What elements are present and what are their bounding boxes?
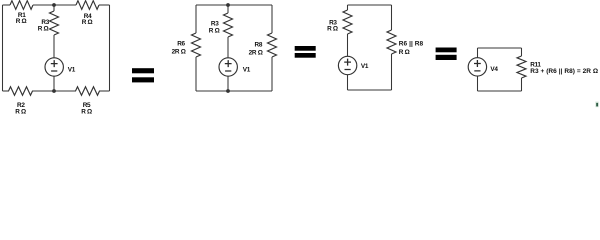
wire: R3 to V1 [53,35,55,58]
svg-text:R Ω: R Ω [81,109,92,116]
wire: R3 to V1 (circuit 3) [347,34,349,56]
resistor R2 [9,87,33,96]
wire: circuit 1 middle branch upper [53,5,55,11]
resistor R6 [192,33,201,57]
svg-text:R Ω: R Ω [38,25,49,32]
wire: circuit 2 left upper [195,5,197,33]
wire: circuit 4 right lower [521,78,523,91]
wire: circuit 3 top rail [348,4,392,6]
svg-text:R Ω: R Ω [82,19,93,26]
wire: circuit 2 right lower [271,57,273,91]
equals sign 3 [436,48,457,53]
wire: circuit 4 right upper [521,48,523,56]
node: circuit 1 bottom junction [52,89,56,93]
equals sign 1 [132,68,154,73]
svg-text:R Ω: R Ω [399,49,410,56]
svg-text:R3: R3 [211,20,219,27]
wire: circuit 4 bottom rail [478,90,522,92]
wire: circuit 1 right side [109,5,111,91]
svg-text:V1: V1 [68,66,76,73]
svg-text:R6 || R8: R6 || R8 [399,40,424,47]
wire: circuit 3 bottom rail [348,89,392,91]
wire: circuit 1 bottom-right segment [99,90,110,92]
node: circuit 1 top junction [52,3,56,7]
svg-text:R Ω: R Ω [16,18,27,25]
wire: circuit 2 left lower [195,57,197,91]
wire: circuit 3 right upper [391,5,393,30]
wire: circuit 3 left upper [347,5,349,10]
resistor R11 [517,56,526,78]
wire: V1 to bottom junction [53,76,55,91]
wire: circuit 2 middle upper [227,5,229,13]
wire: V1 to bottom (circuit 2) [227,76,229,91]
wire: V1 to bottom (circuit 3) [347,75,349,90]
svg-text:R3 + (R6 || R8) = 2R Ω: R3 + (R6 || R8) = 2R Ω [530,68,598,75]
resistor R8 [268,33,277,57]
wire: circuit 4 top rail [478,47,522,49]
resistor R1 [10,1,33,10]
svg-text:R8: R8 [255,41,263,48]
wire: circuit 1 bottom middle segment [32,90,76,92]
voltage source V1 (circuit 3) [338,56,356,74]
resistor R6 || R8 [387,30,396,54]
node: circuit 2 top junction [226,3,230,7]
wire: circuit 1 top-right segment [99,4,110,6]
resistor R3 (circuit 2) [224,13,233,37]
svg-text:R Ω: R Ω [15,109,26,116]
wire: circuit 2 right upper [271,5,273,33]
svg-text:R6: R6 [177,41,185,48]
resistor R5 [76,87,100,96]
wire: circuit 1 bottom-left segment [3,90,10,92]
wire: circuit 1 top-left segment [3,4,11,6]
svg-text:V1: V1 [243,66,251,73]
wire: circuit 2 top rail [196,4,272,6]
svg-text:V1: V1 [361,63,369,70]
resistor R3 (circuit 3) [343,10,352,34]
voltage source V1 (circuit 2) [219,58,237,76]
green mark bottom right [595,102,598,108]
svg-text:2R Ω: 2R Ω [172,48,186,55]
svg-text:R Ω: R Ω [327,26,338,33]
wire: circuit 2 bottom rail [196,90,272,92]
svg-text:2R Ω: 2R Ω [249,50,263,57]
wire: circuit 1 left side [2,5,4,91]
wire: circuit 3 right lower [391,54,393,90]
wire: R3 to V1 (circuit 2) [227,37,229,58]
voltage source V1 (circuit 1) [45,58,63,76]
wire: circuit 4 left lower [477,76,479,91]
wire: circuit 1 top middle segment [33,4,76,6]
node: circuit 2 bottom junction [226,89,230,93]
wire: circuit 4 left upper [477,48,479,58]
voltage source V4 [468,58,486,76]
equals sign 2 [295,46,316,51]
svg-text:R Ω: R Ω [209,27,220,34]
svg-text:V4: V4 [490,66,498,73]
resistor R4 [76,1,99,10]
resistor R3 (circuit 1) [50,11,59,35]
